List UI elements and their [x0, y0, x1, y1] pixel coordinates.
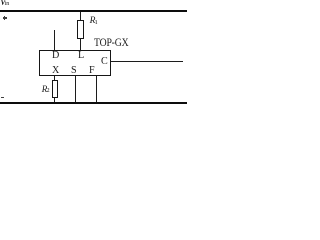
wire pin S to bottom rail: [75, 76, 76, 102]
wire top rail to R1: [80, 12, 81, 20]
plus terminal: [3, 17, 7, 18]
wire pin F to bottom rail: [96, 76, 97, 102]
pin label D: [52, 50, 59, 61]
node Vin label V: [0, 0, 6, 8]
resistor R2: [52, 80, 58, 98]
wire R2 to bottom rail: [54, 98, 55, 102]
label R1: [90, 17, 96, 27]
pin label L: [78, 50, 84, 61]
resistor R1: [77, 20, 84, 39]
wire top rail (Vin +): [0, 10, 187, 12]
wire pin X to R2: [54, 76, 55, 80]
pin label C: [101, 56, 108, 67]
pin label X: [52, 65, 59, 76]
node Vin label subscript in: [5, 1, 10, 7]
minus terminal: [1, 97, 5, 98]
wire bottom rail: [0, 102, 187, 104]
label TOP-GX: [94, 38, 128, 50]
wire pin C to right: [111, 61, 183, 62]
pin label S: [71, 65, 77, 76]
IC box U1 TOP-GX: [39, 50, 111, 76]
pin label F: [89, 65, 95, 76]
wire stub above pin D: [54, 30, 55, 50]
wire R1 to pin L: [80, 38, 81, 50]
label R2: [42, 85, 48, 94]
